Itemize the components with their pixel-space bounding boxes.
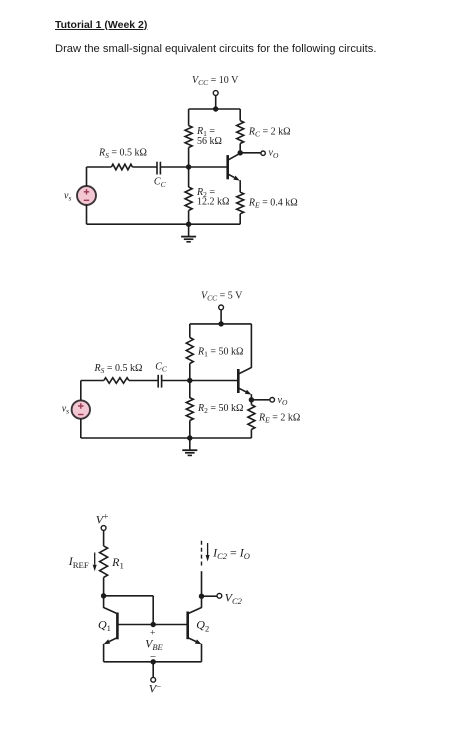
node base rail junction [151,622,156,627]
wire vs top circuit2 [80,381,82,401]
transistor Q circuit1 collector lead [228,153,240,160]
source vs circuit2 [72,400,90,418]
resistor RE (0.4k) [237,192,244,214]
wire R2 top lead circuit2 [189,381,191,399]
node ground junction circuit1 [186,222,191,227]
node VCC rail junction [213,106,218,111]
svg-text:IREF​: IREF​ [68,554,89,570]
transistor Q circuit1 base bar [226,155,229,179]
terminal VCC circuit1 [213,91,218,96]
wire RE bottom lead circuit2 [250,430,252,439]
svg-text:RE​ = 2 kΩ: RE​ = 2 kΩ [258,413,300,425]
svg-text:VCC​ = 10 V: VCC​ = 10 V [192,75,239,87]
svg-text:CC​: CC​ [155,362,168,374]
wire R1 bottom to collector node Q1 [103,577,105,595]
transistor Q2 collector lead [188,608,201,614]
transistor Q circuit1 emitter lead with arrow [228,174,234,177]
transistor Q1 base bar [116,613,119,640]
wire VCC down [215,95,217,109]
resistor RE (2k) circuit2 [250,400,252,405]
wire R2 top lead [188,167,190,187]
wire Q2 collector up to node [201,596,203,608]
wire RE bottom lead [239,214,241,224]
vs minus sign [84,199,89,201]
wire Q1 collector up [103,596,105,608]
wire collector up to rail circuit2 [250,324,252,368]
wire emitter to vo circuit2 [251,399,269,401]
wire collector node to VC2 [202,595,218,597]
wire R2 bottom lead circuit2 [189,421,191,439]
instruction text [55,43,376,55]
current arrow IC2 [207,543,209,555]
transistor Q circuit2 emitter lead with arrow [239,388,246,392]
wire mirror connection horizontal [104,595,154,597]
svg-text:R1​: R1​ [111,555,124,571]
svg-text:+: + [150,629,155,639]
svg-text:IC2​ = IO​: IC2​ = IO​ [212,545,250,561]
wire vs bottom circuit2 [80,419,82,438]
wire R2 bottom lead [188,211,190,225]
ground circuit1 [188,224,190,236]
capacitor CC circuit2 [157,375,159,388]
transistor Q2 base bar [186,612,189,640]
terminal VC2 [217,593,222,598]
wire R1 top lead circuit2 [189,324,191,338]
node emitter circuit2 [249,397,254,402]
wire base circuit2 [162,380,239,382]
vs plus sign circuit2 [78,403,83,408]
wire R1 bottom to base node [188,148,190,168]
wire V- stub [152,662,154,678]
transistor Q circuit2 collector lead [239,368,252,374]
wire base rail Q1-Q2 [117,624,187,626]
wire Q2 emitter down [201,644,203,662]
svg-text:56 kΩ: 56 kΩ [197,136,222,147]
current arrow IREF [94,553,96,565]
resistor R1 circuit3 [100,546,108,578]
wire vs to RS [87,166,112,168]
wire R1 top lead [188,109,190,126]
wire RC bottom to collector [239,144,241,153]
ground circuit2 [189,438,191,450]
svg-text:vO​: vO​ [278,395,288,407]
svg-text:V+​: V+​ [96,512,109,526]
wire bottom rail circuit1 [87,223,241,225]
svg-text:CC​: CC​ [154,177,167,189]
svg-text:V−​: V−​ [149,681,161,695]
terminal VCC circuit2 [219,305,224,310]
resistor R1 (50k) circuit2 [186,338,193,364]
wire VCC down circuit2 [220,310,222,324]
wire top rail circuit2 [190,323,252,325]
vs plus sign [84,189,89,194]
wire mirror connection vertical [152,596,154,625]
wire RC top lead [239,109,241,121]
vs minus sign circuit2 [78,414,83,416]
resistor R1 (56k) [185,126,192,148]
svg-text:RS​ = 0.5 kΩ: RS​ = 0.5 kΩ [98,148,147,160]
wire collector to vo [240,152,260,154]
wire R1 bottom to base node circuit2 [189,364,191,381]
transistor Q2 emitter lead with arrow [188,638,196,642]
node collector Q2 [199,594,204,599]
source vs circuit1 [77,186,96,205]
wire vs bottom [86,205,88,224]
transistor Q1 emitter lead with arrow [109,638,117,642]
node collector circuit1 [238,150,243,155]
node base junction circuit2 [187,378,192,383]
node VCC rail junction circuit2 [218,321,223,326]
capacitor CC circuit1 [156,162,158,175]
svg-text:R1​ = 50 kΩ: R1​ = 50 kΩ [197,346,243,358]
svg-text:vs​: vs​ [64,191,71,203]
wire base circuit1 [160,166,227,168]
svg-text:vs​: vs​ [62,404,69,416]
wire emitter to node circuit2 [250,394,252,400]
svg-text:Q1​: Q1​ [98,618,111,634]
title heading [55,19,147,31]
node ground junction circuit2 [187,435,192,440]
node base junction circuit1 [186,164,191,169]
wire vs to RS circuit2 [81,380,104,382]
resistor R2 (50k) circuit2 [186,398,193,421]
terminal V+ [101,526,106,531]
svg-text:12.2 kΩ: 12.2 kΩ [197,197,229,208]
svg-text:vO​: vO​ [269,148,279,160]
resistor RS circuit2 [104,378,129,384]
svg-text:RE​ = 0.4 kΩ: RE​ = 0.4 kΩ [248,197,298,209]
svg-text:−: − [150,651,156,663]
wire V+ down to R1 [103,530,105,546]
resistor R2 (12.2k) [185,187,192,211]
svg-text:RS​ = 0.5 kΩ: RS​ = 0.5 kΩ [94,363,143,375]
svg-text:VCC​ = 5 V: VCC​ = 5 V [201,291,243,303]
wire emitter down to RE [239,180,241,192]
wire RS to CC [132,166,157,168]
wire collector solid above node [201,571,203,596]
terminal vo circuit2 [270,398,275,403]
wire bottom rail circuit3 [104,661,202,663]
node collector Q1 [101,593,106,598]
transistor Q circuit2 base bar [237,369,240,393]
wire Q1 emitter down [103,644,105,662]
svg-text:RC​ = 2 kΩ: RC​ = 2 kΩ [248,126,291,138]
terminal V- [151,677,156,682]
svg-text:R2​ = 50 kΩ: R2​ = 50 kΩ [197,403,243,415]
wire top rail circuit1 [189,108,241,110]
resistor RS circuit1 [111,164,132,170]
node V- junction [151,659,156,664]
transistor Q1 collector lead [104,608,117,614]
wire vs top [86,167,88,186]
svg-text:VC2​: VC2​ [225,590,243,606]
resistor RC (2k) [237,121,244,144]
dashed wire IC2 [201,541,203,568]
svg-text:Q2​: Q2​ [196,618,209,634]
wire RS to CC circuit2 [129,380,158,382]
wire bottom rail circuit2 [81,437,252,439]
terminal vo circuit1 [261,151,265,155]
svg-text:VBE​: VBE​ [145,638,163,652]
